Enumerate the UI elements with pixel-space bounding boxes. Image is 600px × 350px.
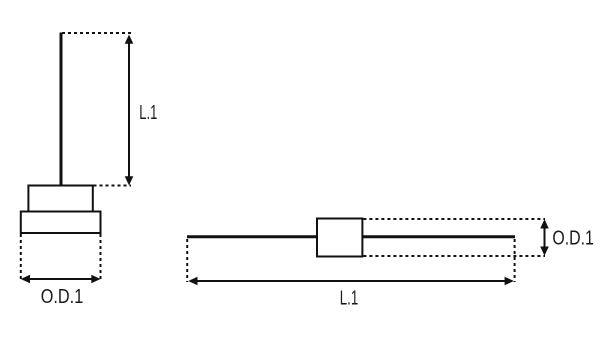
right view: left lead (187, 235, 317, 238)
right view: left dashed extension line (186, 239, 188, 282)
left view: middle dotted extension line (94, 185, 132, 187)
left view: upper body rectangle (28, 186, 92, 212)
right view: body rectangle (317, 219, 362, 257)
right view: L.1 dimension arrow line (188, 277, 514, 286)
left view: O.D.1 dimension arrow line (21, 275, 101, 284)
left view: right extension dashed line (100, 234, 102, 282)
left view: lower wider body rectangle (21, 212, 101, 234)
svg-text:O.D.1: O.D.1 (552, 227, 594, 249)
right view: right lead (362, 235, 515, 238)
right view: right dashed extension line (514, 239, 516, 282)
svg-text:L.1: L.1 (139, 102, 157, 124)
right view: top dotted extension line (363, 218, 545, 220)
svg-text:L.1: L.1 (340, 287, 359, 309)
right view: bottom dotted extension line (363, 255, 545, 257)
svg-text:O.D.1: O.D.1 (41, 286, 84, 308)
left view: left extension dashed line (20, 234, 22, 282)
left view: L.1 vertical dimension arrow line (125, 35, 134, 186)
right view: O.D.1 vertical dimension arrow line (540, 219, 549, 255)
left view: top dotted extension line (62, 32, 131, 34)
left view: lead wire (60, 33, 63, 187)
